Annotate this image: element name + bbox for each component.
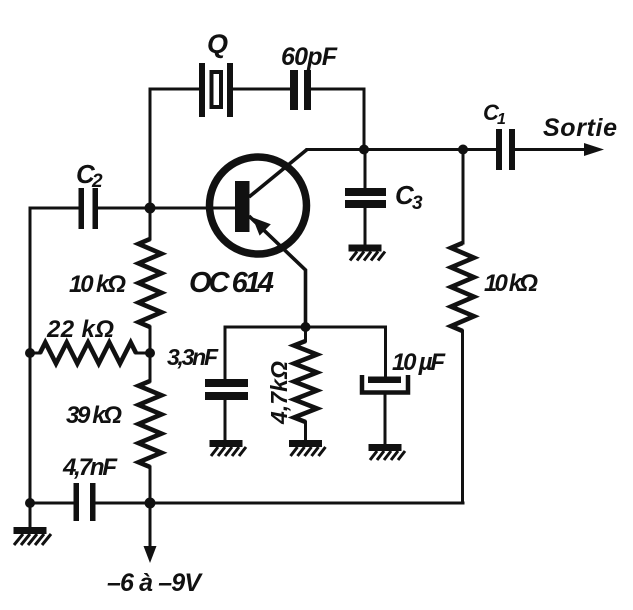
svg-text:10 µF: 10 µF — [392, 349, 446, 376]
svg-text:10 kΩ: 10 kΩ — [69, 271, 126, 298]
svg-text:Q: Q — [207, 29, 228, 59]
svg-text:39 kΩ: 39 kΩ — [66, 402, 122, 429]
svg-text:1: 1 — [497, 111, 506, 128]
svg-text:–6 à –9V: –6 à –9V — [107, 569, 203, 597]
svg-text:2: 2 — [91, 171, 103, 192]
svg-text:3: 3 — [412, 193, 423, 214]
svg-text:3,3nF: 3,3nF — [167, 344, 219, 370]
svg-text:4,7kΩ: 4,7kΩ — [266, 361, 292, 425]
svg-text:Sortie: Sortie — [543, 114, 617, 142]
svg-text:OC 614: OC 614 — [189, 267, 274, 299]
svg-text:10 kΩ: 10 kΩ — [484, 270, 538, 297]
svg-text:22 kΩ: 22 kΩ — [46, 316, 114, 343]
svg-text:60pF: 60pF — [281, 43, 338, 71]
svg-text:4,7nF: 4,7nF — [62, 454, 118, 481]
